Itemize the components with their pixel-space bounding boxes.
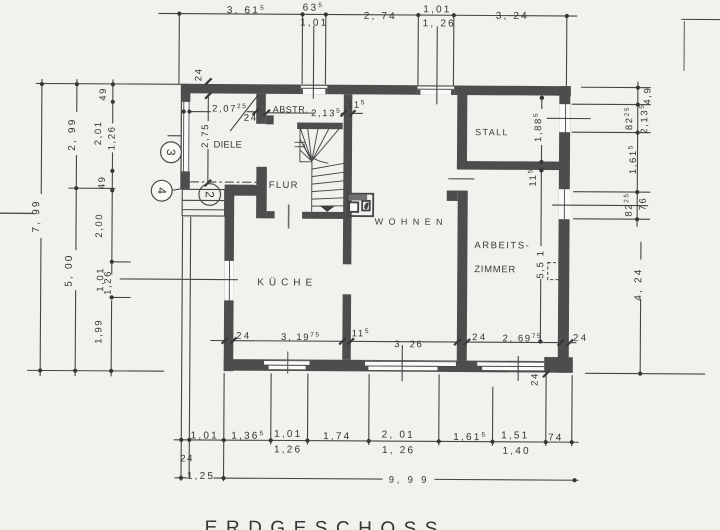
svg-text:1,25: 1,25 — [187, 471, 215, 482]
svg-text:4, 24: 4, 24 — [633, 267, 644, 300]
svg-text:24: 24 — [530, 372, 541, 386]
svg-text:2,01: 2,01 — [93, 120, 104, 145]
svg-text:1,40: 1,40 — [503, 446, 531, 457]
svg-text:24: 24 — [244, 113, 258, 124]
svg-text:2, 01: 2, 01 — [382, 430, 415, 441]
svg-text:WOHNEN: WOHNEN — [375, 216, 448, 226]
svg-text:3, 26: 3, 26 — [394, 339, 423, 350]
svg-text:2, 99: 2, 99 — [67, 117, 78, 150]
svg-text:1,26: 1,26 — [274, 444, 302, 455]
svg-text:ERDGESCHOSS: ERDGESCHOSS — [205, 517, 446, 530]
svg-text:1,01: 1,01 — [423, 4, 451, 15]
svg-text:4,9: 4,9 — [642, 87, 653, 105]
svg-text:1, 26: 1, 26 — [382, 445, 415, 456]
svg-text:2,75: 2,75 — [200, 123, 211, 148]
svg-text:24: 24 — [573, 333, 589, 344]
svg-text:3: 3 — [164, 149, 178, 156]
svg-text:FLUR: FLUR — [269, 180, 299, 191]
svg-text:1,26: 1,26 — [107, 125, 118, 150]
svg-text:1,26: 1,26 — [103, 270, 114, 295]
svg-text:4: 4 — [155, 187, 169, 194]
svg-text:24: 24 — [472, 332, 488, 343]
svg-text:1,99: 1,99 — [93, 319, 104, 344]
svg-text:ZIMMER: ZIMMER — [474, 264, 516, 275]
svg-text:1,51: 1,51 — [501, 430, 529, 441]
svg-text:24: 24 — [193, 67, 204, 81]
svg-text:1,74: 1,74 — [323, 431, 351, 442]
svg-text:ABSTR.: ABSTR. — [273, 104, 309, 114]
svg-text:STALL: STALL — [475, 127, 509, 137]
svg-text:ARBEITS-: ARBEITS- — [474, 240, 530, 251]
svg-text:1,01: 1,01 — [274, 429, 302, 440]
svg-text:2, 74: 2, 74 — [364, 11, 397, 22]
svg-text:49: 49 — [98, 87, 109, 101]
svg-text:49: 49 — [97, 175, 108, 189]
svg-text:1,01: 1,01 — [191, 430, 219, 441]
svg-text:24: 24 — [236, 331, 252, 342]
svg-text:9, 9 9: 9, 9 9 — [389, 475, 430, 486]
svg-text:1, 26: 1, 26 — [423, 18, 456, 29]
svg-text:7, 99: 7, 99 — [31, 199, 42, 232]
svg-text:5, 00: 5, 00 — [64, 253, 75, 286]
svg-text:2: 2 — [203, 191, 217, 198]
svg-text:DIELE: DIELE — [214, 140, 243, 151]
svg-text:24: 24 — [180, 453, 194, 464]
svg-text:3, 24: 3, 24 — [496, 11, 529, 22]
svg-text:74: 74 — [548, 433, 564, 444]
svg-text:2,00: 2,00 — [94, 213, 105, 238]
svg-text:KÜCHE: KÜCHE — [257, 276, 317, 288]
svg-text:1,01: 1,01 — [300, 18, 328, 29]
svg-text:5,5 1: 5,5 1 — [535, 249, 546, 278]
svg-text:76: 76 — [638, 197, 649, 211]
